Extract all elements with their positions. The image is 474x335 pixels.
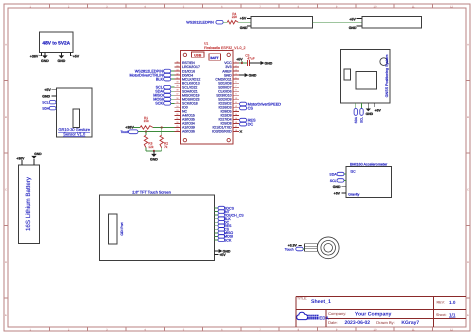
svg-text:TITLE:: TITLE: <box>297 297 307 301</box>
svg-text:+5V: +5V <box>349 17 356 21</box>
MCU pins left <box>175 61 201 134</box>
module 2.8 inch TFT touch screen <box>100 190 215 260</box>
LED module 2 <box>362 17 422 29</box>
net flag CS (TFT) <box>215 228 230 232</box>
svg-text:A: A <box>467 43 469 46</box>
svg-text:16S Lithium Battery: 16S Lithium Battery <box>25 176 32 231</box>
svg-text:SCK: SCK <box>224 238 232 242</box>
svg-text:SCL: SCL <box>42 101 49 105</box>
svg-text:Firebeetle ESP32_V1.0_2: Firebeetle ESP32_V1.0_2 <box>204 46 246 50</box>
svg-text:48V to 5V2A: 48V to 5V2A <box>42 40 70 46</box>
net flag SCL BMI160 <box>330 179 346 183</box>
MCU pins right <box>212 61 239 134</box>
LED module 1 <box>251 16 312 28</box>
+5V label GNSS <box>374 103 381 113</box>
svg-text:+5V: +5V <box>44 88 51 92</box>
+36V label at R1 <box>125 126 140 130</box>
svg-text:GDI Port: GDI Port <box>120 222 124 235</box>
net flag SCL GNSS <box>360 103 364 123</box>
resistor R2 7k <box>160 127 168 150</box>
GND label LED module 2 <box>349 26 362 30</box>
svg-text:Date:: Date: <box>328 320 338 325</box>
svg-text:+5V: +5V <box>236 57 243 61</box>
svg-text:GND: GND <box>41 59 49 63</box>
svg-text:SDA: SDA <box>354 116 358 123</box>
svg-text:+5V: +5V <box>334 191 341 195</box>
svg-text:I2C: I2C <box>351 170 357 174</box>
net flag MISO (TFT) <box>215 231 234 235</box>
net flag SDA GNSS <box>354 103 358 124</box>
svg-text:B: B <box>467 116 469 119</box>
net flag BLK (MCU left) <box>156 77 175 81</box>
svg-text:1/1: 1/1 <box>449 312 456 317</box>
svg-text:B: B <box>5 116 7 119</box>
net flag CS (MCU right) <box>240 105 254 110</box>
svg-text:GND: GND <box>42 95 50 99</box>
net flag SDA BMI160 <box>329 172 346 176</box>
svg-text:IO3/D0/RXD: IO3/D0/RXD <box>212 130 232 134</box>
wire divider bottom <box>146 150 162 152</box>
net flag DC (MCU right) <box>240 121 254 126</box>
ground converter pin 3 <box>58 52 66 63</box>
GND label LED module 1 <box>240 26 251 30</box>
ground GNSS <box>366 103 374 116</box>
svg-text:GND: GND <box>366 112 374 116</box>
net flag MOSI (TFT) <box>215 235 234 239</box>
svg-text:BLK: BLK <box>156 77 164 81</box>
resistor R1 15k <box>140 116 153 129</box>
module gesture sensor GR10-30 <box>56 88 92 137</box>
svg-text:GND: GND <box>34 152 42 156</box>
net flag Touch (probe) <box>285 247 305 252</box>
svg-text:12k: 12k <box>148 145 154 149</box>
net flag SDA gesture sensor <box>42 107 56 111</box>
svg-text:GND: GND <box>349 26 357 30</box>
svg-text:A0/IO36: A0/IO36 <box>182 130 195 134</box>
net flag MOSI (MCU left) <box>153 97 174 101</box>
svg-text:SCL: SCL <box>330 179 337 183</box>
svg-text:+5V: +5V <box>240 17 247 21</box>
wire Touch to pin A0/IO36 <box>138 130 175 132</box>
net flag SDA (MCU left) <box>155 89 174 93</box>
net flag RES (MCU right) <box>240 117 257 122</box>
module BMI160 accelerometer <box>346 163 392 198</box>
ground TFT <box>215 249 231 253</box>
svg-text:D: D <box>5 261 7 264</box>
net flag SCL gesture sensor <box>42 101 56 105</box>
net flag TOUCH_CS (TFT) <box>215 213 245 217</box>
svg-text:KGray7: KGray7 <box>401 320 419 326</box>
net flag INT (TFT) <box>215 210 231 214</box>
net flag BLK (TFT) <box>215 217 232 221</box>
+5V label LED module 2 <box>349 17 362 21</box>
svg-text:USB: USB <box>194 53 202 57</box>
svg-text:Sheet:: Sheet: <box>436 313 447 317</box>
capacitor C5 47uF <box>245 54 254 67</box>
svg-text:47uF: 47uF <box>247 57 254 61</box>
svg-text:C: C <box>467 188 469 191</box>
svg-text:+5V: +5V <box>219 253 226 257</box>
svg-text:+36V: +36V <box>30 54 39 58</box>
net flag WS2812LEDPIN (MCU left) <box>135 69 175 73</box>
svg-text:7k: 7k <box>164 145 168 149</box>
svg-text:15k: 15k <box>144 119 150 123</box>
ground converter pin 2 <box>41 52 49 63</box>
svg-text:DC: DC <box>248 121 254 126</box>
svg-text:SDA: SDA <box>42 107 50 111</box>
+36V label battery <box>16 157 25 165</box>
net flag SCK (TFT) <box>215 238 232 242</box>
ground flag at GND pin <box>245 73 257 77</box>
svg-text:GND: GND <box>240 26 248 30</box>
svg-text:+36V: +36V <box>16 157 25 161</box>
net flag SCL (MCU left) <box>156 85 175 89</box>
svg-text:C: C <box>5 188 7 191</box>
module 16S lithium battery <box>18 165 39 244</box>
net flag WS2812LEDPIN (top) <box>186 20 227 24</box>
svg-text:GNSS Positioning System: GNSS Positioning System <box>385 55 389 98</box>
net flag MISO (MCU left) <box>153 93 174 97</box>
net flag MotorDriverCTRLIN (MCU left) <box>129 73 174 77</box>
net flag MotorDriverSPEED (MCU right) <box>240 101 282 106</box>
svg-text:220: 220 <box>232 15 238 19</box>
net flag Touch (left) <box>121 130 139 134</box>
ground flag at C5 <box>261 61 273 65</box>
+5V label BMI160 <box>334 191 346 195</box>
svg-text:Gravity: Gravity <box>348 192 359 196</box>
module GNSS positioning system <box>341 49 391 103</box>
op module U1 Firebeetle ESP32 <box>181 42 246 144</box>
net flag SDCS (TFT) <box>215 206 235 210</box>
svg-text:+5V: +5V <box>375 109 382 113</box>
svg-text:1.0: 1.0 <box>449 300 456 305</box>
resistor R3 12k <box>144 132 154 151</box>
+5V label LED module 1 <box>240 17 251 21</box>
+5V label TFT <box>215 253 227 257</box>
wire R1 to pin A1/IO39 <box>153 126 175 128</box>
svg-text:GND: GND <box>265 61 273 65</box>
GND label gesture sensor <box>42 95 56 99</box>
net flag DC (TFT) <box>215 221 230 225</box>
svg-text:2023-06-02: 2023-06-02 <box>345 320 371 326</box>
wire R4 to LED module <box>238 21 251 23</box>
wire GND pin to ground <box>239 74 245 76</box>
svg-text:Sensor V1.0: Sensor V1.0 <box>63 131 86 136</box>
svg-text:Company:: Company: <box>328 311 346 316</box>
wire converter to +5V <box>71 52 80 58</box>
svg-text:SCK: SCK <box>155 102 163 106</box>
svg-text:Touch: Touch <box>285 248 294 252</box>
+3.3V label touch probe <box>288 244 302 248</box>
wire C5 to ground <box>250 62 261 64</box>
svg-text:REV:: REV: <box>437 301 445 305</box>
title block <box>296 296 466 327</box>
wire VCC to +5V and C5 <box>236 57 247 64</box>
svg-text:SDA: SDA <box>329 172 337 176</box>
resistor R4 220 <box>227 12 238 24</box>
svg-text:WS2812LEDPIN: WS2812LEDPIN <box>186 21 214 25</box>
svg-text:Your Company: Your Company <box>355 312 392 318</box>
wire LED1 to LED2 <box>312 21 362 23</box>
svg-text:CS: CS <box>248 105 254 110</box>
svg-text:SCL: SCL <box>360 117 364 123</box>
no-connect cross pin IO3 <box>240 130 243 133</box>
svg-text:Drawn By:: Drawn By: <box>376 320 394 325</box>
svg-text:E: E <box>467 314 469 317</box>
svg-text:GND: GND <box>150 158 158 162</box>
net flag SCK (MCU left) <box>155 102 174 106</box>
wire +36V to converter <box>30 52 42 58</box>
svg-text:GND: GND <box>249 73 257 77</box>
svg-text:+5V: +5V <box>73 54 80 58</box>
net flag RES (TFT) <box>215 224 232 228</box>
svg-text:A: A <box>5 43 7 46</box>
+5V label gesture sensor <box>44 88 56 92</box>
GND label BMI160 <box>333 185 346 189</box>
svg-text:D: D <box>467 261 469 264</box>
svg-text:Sheet_1: Sheet_1 <box>311 299 331 305</box>
ground divider <box>150 151 158 162</box>
svg-text:BATT: BATT <box>210 56 218 60</box>
ground battery <box>31 152 42 165</box>
svg-text:EDA: EDA <box>319 316 329 321</box>
svg-text:E: E <box>5 314 7 317</box>
svg-text:2.8" TFT Touch Screen: 2.8" TFT Touch Screen <box>132 190 171 194</box>
touch probe electrode <box>305 237 340 259</box>
module U2 48V to 5V2A converter <box>40 32 73 52</box>
svg-text:GND: GND <box>58 59 66 63</box>
svg-text:GND: GND <box>333 185 341 189</box>
